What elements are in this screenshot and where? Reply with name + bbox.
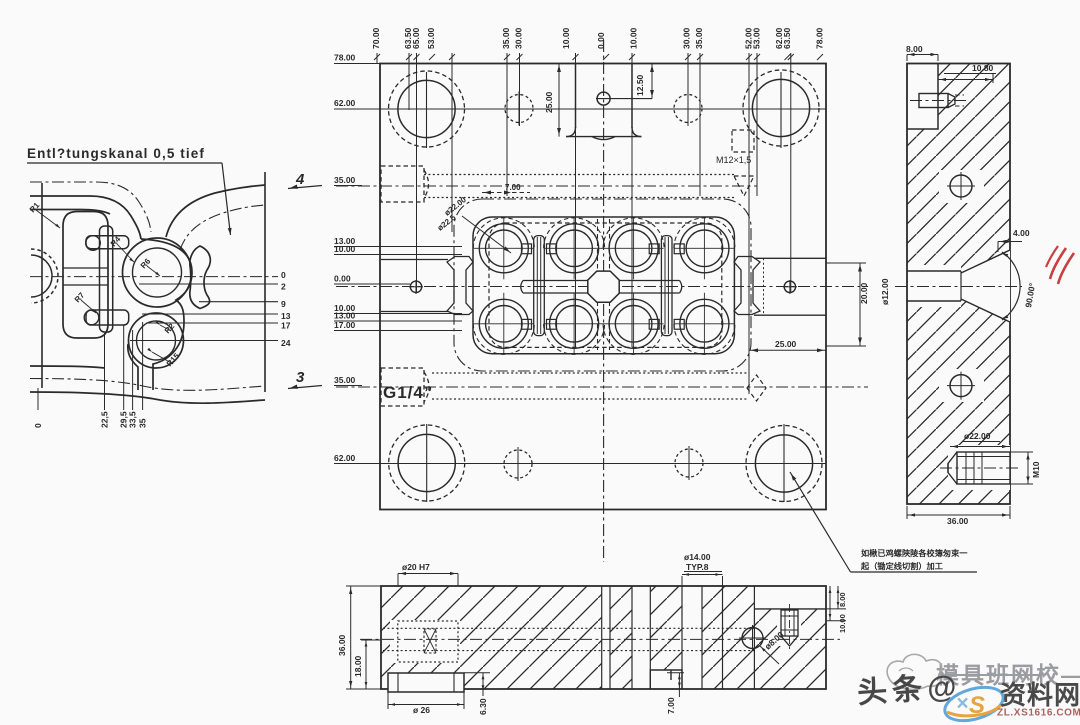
svg-text:35.00: 35.00	[694, 27, 704, 49]
detail bottom extension lines and labels	[37, 388, 39, 410]
svg-text:0.00: 0.00	[596, 32, 606, 49]
water inlet right	[784, 281, 795, 292]
svg-text:ø14.00: ø14.00	[684, 552, 711, 562]
bottom notch	[650, 670, 682, 689]
side set screw	[957, 452, 1010, 484]
svg-text:62.00: 62.00	[334, 453, 356, 463]
detail right blob	[190, 246, 211, 309]
cavity insert outline	[473, 217, 734, 354]
side view outline	[907, 64, 1010, 505]
side dowel pin	[919, 94, 948, 108]
svg-text:65.00: 65.00	[411, 27, 421, 49]
svg-text:2: 2	[281, 282, 286, 292]
sprue pocket bottom	[566, 127, 576, 137]
svg-text:13.00: 13.00	[334, 311, 356, 321]
bottom boss	[388, 673, 464, 692]
horizontal center line	[336, 286, 868, 288]
svg-text:G1/4”: G1/4”	[383, 383, 433, 402]
svg-text:13: 13	[281, 311, 291, 321]
detail left edge	[41, 183, 43, 388]
detail ejector pin lower	[84, 310, 99, 325]
svg-text:9: 9	[281, 299, 286, 309]
detail ejector cross bar lower	[86, 310, 129, 325]
svg-text:30.00: 30.00	[682, 27, 692, 49]
note leader	[790, 472, 851, 572]
main plate outline	[380, 64, 826, 510]
return pin hole top-right	[674, 95, 702, 123]
svg-text:20.00: 20.00	[859, 282, 869, 304]
side view hatched body	[907, 64, 1010, 505]
bottom recess top-right	[754, 608, 825, 610]
lower water line b	[432, 398, 748, 400]
svg-text:0: 0	[33, 423, 43, 428]
svg-text:35.00: 35.00	[334, 175, 356, 185]
svg-text:M10: M10	[1031, 461, 1041, 478]
svg-text:8.00: 8.00	[906, 44, 923, 54]
svg-text:63.50: 63.50	[782, 27, 792, 49]
upper water centerline	[336, 185, 757, 187]
side lock left	[447, 257, 473, 315]
bottom bore hidden	[398, 621, 458, 662]
guide hole crosshair BR	[783, 424, 785, 502]
sprue center hole	[597, 92, 610, 105]
bottom screw	[781, 610, 798, 636]
detail blob slot	[63, 267, 108, 269]
svg-text:53.00: 53.00	[752, 27, 762, 49]
top extension lines	[376, 53, 378, 64]
lower water centerline	[336, 386, 868, 388]
svg-text:78.00: 78.00	[334, 53, 356, 63]
side pocket lines left	[381, 259, 448, 261]
svg-text:ø20 H7: ø20 H7	[402, 562, 430, 572]
detail line 2	[139, 283, 278, 285]
svg-text:ø 26: ø 26	[413, 705, 430, 715]
upper water line a	[424, 174, 734, 176]
detail line 17	[146, 322, 278, 324]
svg-text:10.00: 10.00	[629, 27, 639, 49]
dim 20.00 right	[826, 262, 866, 264]
guide hole crosshair TL	[426, 72, 428, 148]
side view white patches	[907, 247, 961, 249]
dim 7.00	[482, 192, 530, 194]
cavity dia leader	[462, 216, 511, 253]
side counterbore	[907, 270, 961, 272]
lower water plug cone	[747, 375, 766, 401]
detail ejector cross vertical	[100, 226, 113, 332]
vertical center line	[603, 40, 605, 562]
svg-text:22,5: 22,5	[100, 411, 110, 428]
detail ejector pin upper	[86, 236, 101, 251]
svg-text:TYP.8: TYP.8	[686, 562, 709, 572]
detail bottom channel	[30, 379, 265, 391]
sprue drop hidden lines	[597, 219, 599, 350]
detail centerline	[30, 276, 278, 278]
svg-text:36.00: 36.00	[947, 516, 969, 526]
svg-text:10.00: 10.00	[334, 244, 356, 254]
detail top channel	[30, 182, 151, 232]
svg-text:35.00: 35.00	[334, 375, 356, 385]
dim 18.00 bottom	[361, 639, 381, 641]
svg-text:S: S	[969, 692, 985, 719]
detail line 9	[199, 301, 278, 303]
svg-text:Entl?tungskanal 0,5 tief: Entl?tungskanal 0,5 tief	[27, 146, 205, 161]
manifold pocket upper left	[381, 166, 424, 202]
cooling loop dash-dot rounded rect	[454, 199, 751, 371]
upper water plug cone	[734, 176, 754, 196]
angle 90 arc	[1002, 252, 1020, 320]
guide hole bottom-left	[398, 434, 455, 491]
svg-text:36.00: 36.00	[337, 634, 347, 656]
dim 36.00 bottom	[346, 585, 381, 587]
top edge tick marks	[374, 54, 380, 60]
bottom section white bands	[602, 587, 610, 689]
detail channel outer wall	[141, 239, 192, 390]
detail line 24	[130, 340, 278, 342]
svg-text:4.00: 4.00	[1013, 228, 1030, 238]
svg-text:8.00: 8.00	[838, 592, 847, 607]
detail bulge lower	[129, 313, 184, 368]
svg-text:17.00: 17.00	[334, 320, 356, 330]
lower water line a	[432, 372, 748, 374]
svg-text:25.00: 25.00	[544, 91, 554, 113]
guide hole top-left	[398, 80, 455, 137]
svg-text:10.00: 10.00	[838, 614, 847, 633]
sprue pocket right wall	[631, 64, 633, 129]
water inlet left	[410, 281, 421, 292]
svg-text:70.00: 70.00	[371, 27, 381, 49]
watermark strike line	[940, 674, 1042, 676]
svg-text:3: 3	[296, 369, 305, 386]
svg-text:18.00: 18.00	[353, 655, 363, 677]
svg-text:35: 35	[138, 418, 148, 428]
dim 36.00 side	[906, 506, 908, 519]
main runner bar	[521, 281, 682, 294]
svg-text:M12×1,5: M12×1,5	[716, 155, 751, 165]
red scribble	[1050, 248, 1066, 279]
watermark cloud doodle	[887, 654, 942, 689]
svg-text:12.50: 12.50	[635, 74, 645, 96]
svg-text:53.00: 53.00	[426, 27, 436, 49]
bottom small circle	[742, 628, 763, 649]
bottom section verticals	[601, 586, 603, 689]
guide hole crosshair BL	[426, 424, 428, 502]
dim 7.00 bottom	[667, 672, 684, 674]
bottom centerline	[360, 638, 840, 640]
watermark swoosh	[941, 681, 1007, 725]
svg-text:7.00: 7.00	[666, 697, 676, 714]
bottom section hatched body	[381, 586, 826, 689]
guide hole crosshair TR	[780, 72, 782, 148]
svg-text:35.00: 35.00	[501, 27, 511, 49]
dim 25.00 right	[749, 349, 826, 351]
manifold pocket lower left / G1/4 port	[381, 368, 424, 406]
svg-text:10.80: 10.80	[972, 63, 994, 73]
cavity circles	[486, 230, 523, 267]
detail dashed bore arc	[31, 249, 58, 303]
return pin hole bottom-left	[504, 450, 532, 478]
cavity insert hidden outline	[489, 223, 722, 347]
bottom hidden lines	[383, 627, 754, 629]
svg-text:0: 0	[281, 270, 286, 280]
sprue pocket left wall	[575, 64, 577, 129]
svg-text:25.00: 25.00	[775, 339, 797, 349]
svg-text:10.00: 10.00	[561, 27, 571, 49]
guide hole top-right	[752, 79, 809, 136]
detail title leader	[222, 163, 231, 235]
dim dia 26 bottom	[387, 692, 389, 709]
dim M10	[1010, 451, 1033, 453]
svg-text:ø12.00: ø12.00	[880, 278, 890, 305]
dim 10 8 right	[826, 608, 846, 610]
svg-text:ø22.00: ø22.00	[964, 431, 991, 441]
return pin hole top-left	[505, 95, 533, 123]
side counterbore centerline	[895, 286, 1022, 288]
svg-text:×: ×	[956, 692, 968, 715]
detail cavity left blob	[63, 212, 108, 339]
svg-text:如楸已鸡螺陜陵各校簿匆束一: 如楸已鸡螺陜陵各校簿匆束一	[861, 548, 968, 558]
svg-text:0.00: 0.00	[334, 274, 351, 284]
guide hole bottom-right	[755, 435, 812, 492]
detail bulge upper	[123, 238, 192, 307]
upper water line b	[424, 197, 734, 199]
side view notch	[907, 64, 938, 130]
svg-text:起（锄定线切割）加工: 起（锄定线切割）加工	[860, 561, 943, 571]
svg-text:62.00: 62.00	[334, 98, 356, 108]
side hole upper	[950, 175, 972, 197]
side lock right	[734, 257, 760, 315]
pocket above plug	[732, 130, 754, 152]
svg-text:33,5: 33,5	[128, 411, 138, 428]
dim 12.50 sprue	[651, 64, 653, 99]
dim 6.30 bottom	[464, 672, 490, 674]
side hole lower	[950, 375, 972, 397]
svg-text:ZL.XS1616.COM: ZL.XS1616.COM	[997, 708, 1080, 719]
bottom section outline	[381, 586, 826, 689]
label dia 8.00	[760, 646, 779, 664]
return pin hole bottom-right	[675, 449, 703, 477]
svg-text:24: 24	[281, 338, 291, 348]
svg-text:6.30: 6.30	[478, 698, 488, 715]
svg-text:78.00: 78.00	[815, 27, 825, 49]
svg-text:资料网: 资料网	[1000, 680, 1080, 710]
detail ejector cross bar upper	[86, 236, 129, 249]
detail line 13	[142, 313, 278, 315]
runner ladders and gates	[534, 236, 545, 336]
detail right edge	[264, 172, 266, 392]
side pocket lines right	[754, 257, 826, 259]
svg-text:30.00: 30.00	[514, 27, 524, 49]
svg-text:17: 17	[281, 321, 291, 331]
dim 25.00 sprue	[558, 64, 560, 137]
sprue octagon	[588, 271, 619, 302]
